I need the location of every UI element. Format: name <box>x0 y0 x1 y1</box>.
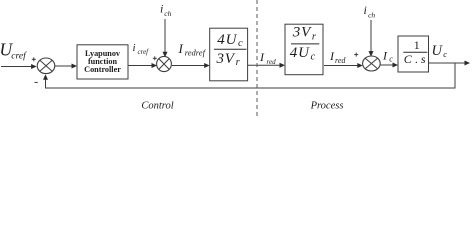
svg-text:1: 1 <box>414 38 420 52</box>
svg-text:i: i <box>133 42 136 54</box>
svg-text:redref: redref <box>185 48 207 58</box>
svg-text:i: i <box>160 2 163 16</box>
svg-text:ch: ch <box>164 9 171 18</box>
svg-text:red: red <box>335 56 346 65</box>
svg-text:i: i <box>364 3 367 17</box>
svg-text:cref: cref <box>11 51 27 62</box>
svg-text:red: red <box>267 58 277 66</box>
svg-text:cref: cref <box>138 48 150 56</box>
svg-text:U: U <box>432 43 444 59</box>
svg-text:c: c <box>443 49 447 59</box>
svg-text:I: I <box>178 41 184 56</box>
svg-text:Control: Control <box>141 101 173 112</box>
svg-text:ch: ch <box>368 10 375 19</box>
svg-text:Controller: Controller <box>84 65 121 74</box>
svg-text:Process: Process <box>310 101 344 112</box>
svg-text:C . s: C . s <box>404 52 426 66</box>
svg-text:c: c <box>389 55 393 64</box>
